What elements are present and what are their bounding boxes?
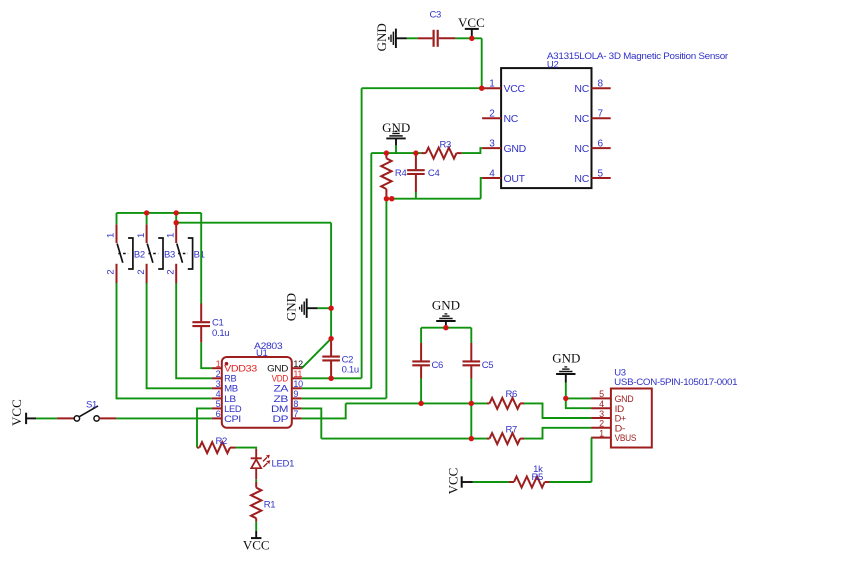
svg-text:C4: C4	[428, 168, 440, 179]
wire VDD vertical rail (U2 pin 1 to U1 pin 11)	[361, 88, 363, 378]
ground GND (top-left)	[374, 23, 418, 51]
svg-text:U1: U1	[256, 348, 268, 359]
svg-text:GND: GND	[552, 351, 580, 366]
power VCC (left of R5)	[446, 468, 473, 495]
wire R6 to U3 pin 3 D+	[524, 403, 591, 418]
svg-text:7: 7	[293, 409, 298, 419]
junction on D- line	[469, 436, 474, 441]
svg-text:2: 2	[489, 109, 495, 120]
svg-text:R6: R6	[506, 389, 518, 400]
resistor R6	[487, 389, 524, 409]
junction C2 bottom on VDD line	[328, 376, 333, 381]
svg-text:8: 8	[293, 399, 298, 409]
wire B1 tap to GND rail	[176, 222, 331, 224]
svg-text:6: 6	[598, 139, 604, 150]
wire R3 to U2 pin 3	[462, 148, 482, 153]
wire C1 to U1 pin 1 VDD33	[201, 343, 212, 369]
junction GND at U3 pin 5	[563, 396, 568, 401]
svg-text:0.1u: 0.1u	[342, 365, 359, 376]
svg-text:1: 1	[216, 359, 221, 369]
connector U3 USB-CON-5PIN-105017-0001	[591, 368, 737, 448]
ground GND (middle, near U1)	[284, 293, 332, 321]
capacitor C6	[412, 343, 443, 379]
svg-text:B2: B2	[134, 249, 145, 260]
wire C6/C5 top rail	[421, 327, 471, 329]
wire VCC to S1	[36, 417, 57, 419]
svg-text:5: 5	[216, 399, 221, 409]
switch S1	[57, 399, 116, 421]
wire C5 bottom to D+ line	[470, 379, 472, 404]
svg-text:C5: C5	[482, 360, 494, 371]
junction R4 top	[384, 150, 389, 155]
svg-text:MB: MB	[224, 384, 238, 394]
svg-text:U2: U2	[547, 59, 559, 70]
svg-text:NC: NC	[574, 173, 589, 185]
wire U1 pin 5 LED to R2	[197, 408, 212, 447]
svg-text:DM: DM	[271, 404, 288, 414]
svg-text:NC: NC	[574, 143, 589, 155]
svg-text:VCC: VCC	[458, 15, 485, 30]
wire S1 to U1 pin 6 CPI	[116, 417, 211, 419]
wire D+ horizontal line	[346, 402, 487, 404]
wire down to U2 pin 1	[481, 38, 483, 88]
svg-text:LB: LB	[224, 394, 236, 404]
wire U2 pin 4 OUT jog	[481, 178, 482, 199]
wire C3 to VCC node	[455, 37, 481, 39]
svg-text:2: 2	[165, 269, 176, 274]
svg-text:GND: GND	[432, 298, 460, 313]
svg-text:GND: GND	[615, 394, 635, 404]
wire U2 pin 1 to VDD rail	[362, 87, 482, 89]
capacitor C2	[322, 340, 359, 377]
svg-text:3: 3	[599, 409, 604, 419]
svg-text:LED1: LED1	[272, 458, 295, 469]
wire C4 bottom to OUT node	[415, 192, 417, 199]
junction OUT node	[389, 196, 394, 201]
svg-text:NC: NC	[574, 113, 589, 125]
svg-text:LED: LED	[224, 404, 242, 414]
wire C6 top lead	[420, 328, 422, 343]
svg-text:C3: C3	[430, 10, 442, 21]
junction B3 top	[144, 210, 149, 215]
wire B1 to U1 pin 2 RB	[176, 283, 212, 378]
capacitor C4	[407, 155, 439, 193]
wire C2 bottom to VDD line	[330, 377, 332, 378]
junction C6 bottom on D+ line	[418, 401, 423, 406]
svg-text:R4: R4	[395, 168, 407, 179]
resistor R4	[381, 154, 406, 198]
svg-text:ZA: ZA	[274, 384, 289, 394]
wire ZB vertical rail (U1 pin 9 to OUT node)	[385, 199, 387, 399]
svg-text:1k: 1k	[533, 464, 543, 475]
svg-text:12: 12	[293, 359, 303, 369]
svg-text:2: 2	[136, 269, 147, 274]
junction C4 top	[413, 150, 418, 155]
capacitor C3	[418, 10, 456, 47]
svg-text:4: 4	[489, 168, 495, 179]
pushbutton B3	[136, 213, 175, 284]
svg-text:GND: GND	[382, 120, 410, 135]
svg-text:9: 9	[293, 389, 298, 399]
svg-text:A31315LOLA- 3D Magnetic Positi: A31315LOLA- 3D Magnetic Position Sensor	[547, 51, 728, 62]
junction R4 bottom	[384, 196, 389, 201]
svg-text:4: 4	[599, 399, 604, 409]
wire C5 node to D- line	[470, 403, 472, 438]
wire ZA vertical rail (U1 pin 10 to GND node)	[370, 153, 372, 388]
svg-text:2: 2	[216, 369, 221, 379]
svg-text:10: 10	[293, 379, 303, 389]
power VCC (left of S1)	[9, 399, 36, 426]
svg-text:C6: C6	[432, 360, 444, 371]
svg-text:GND: GND	[284, 293, 299, 321]
wire R2 to LED1	[236, 448, 257, 449]
wire R1 to VCC	[255, 522, 257, 531]
svg-text:DP: DP	[273, 414, 289, 424]
svg-text:VCC: VCC	[243, 538, 270, 553]
svg-text:3: 3	[216, 379, 221, 389]
ground GND (above R3/R4 node)	[382, 120, 410, 153]
svg-text:11: 11	[293, 369, 302, 379]
junction node VCC/C3	[469, 36, 474, 41]
svg-text:S1: S1	[86, 399, 97, 410]
svg-text:B1: B1	[194, 249, 205, 260]
svg-text:GND: GND	[267, 364, 289, 374]
IC U1 A2803	[212, 341, 303, 428]
svg-text:NC: NC	[574, 83, 589, 95]
svg-text:R3: R3	[440, 140, 452, 151]
wire D- horizontal line	[321, 438, 487, 440]
wire GND to U3 pin 4 ID	[566, 398, 591, 408]
resistor R1	[251, 482, 275, 522]
junction GND to C6/C5 rail	[443, 325, 448, 330]
wire B2 to U1 pin 4 LB	[117, 283, 212, 398]
svg-text:OUT: OUT	[504, 173, 526, 185]
junction GND rail at middle ground	[328, 306, 333, 311]
pushbutton B2	[106, 213, 145, 284]
svg-text:3: 3	[489, 139, 495, 150]
LED LED1	[251, 449, 294, 479]
svg-text:VCC: VCC	[9, 399, 24, 426]
power VCC (bottom)	[243, 531, 270, 553]
svg-text:ID: ID	[615, 404, 625, 414]
svg-text:ZB: ZB	[274, 394, 289, 404]
svg-text:GND: GND	[374, 23, 389, 51]
wire GND rail vertical	[330, 223, 332, 339]
junction C5 bottom on D+ line	[469, 401, 474, 406]
wire U3 pin 1 VBUS down	[591, 438, 593, 482]
svg-text:VCC: VCC	[446, 468, 461, 495]
wire R5 to VCC	[473, 481, 509, 483]
svg-text:1: 1	[489, 79, 495, 90]
svg-text:6: 6	[216, 409, 221, 419]
wire OUT node horizontal	[386, 198, 480, 200]
junction at U2 pin 1	[479, 86, 484, 91]
svg-text:5: 5	[599, 389, 604, 399]
junction B1 top	[174, 210, 179, 215]
wire top rail to C1	[200, 213, 202, 304]
wire U1 pin 8 DM to D- line	[302, 408, 322, 438]
svg-text:CPI: CPI	[224, 414, 241, 424]
svg-text:8: 8	[598, 79, 604, 90]
wire C6 bottom to D+ line	[420, 379, 422, 404]
svg-text:NC: NC	[504, 113, 519, 125]
svg-text:B3: B3	[164, 249, 175, 260]
svg-text:D-: D-	[615, 423, 626, 433]
svg-text:1: 1	[599, 428, 604, 438]
svg-text:2: 2	[599, 419, 604, 429]
svg-text:GND: GND	[504, 143, 527, 155]
svg-text:0.1u: 0.1u	[212, 328, 229, 339]
svg-text:VBUS: VBUS	[615, 433, 637, 443]
wire U1 pin 9 ZB to rail	[302, 397, 387, 399]
svg-text:4: 4	[216, 389, 221, 399]
wire U1 pin 10 ZA to rail	[302, 387, 372, 389]
ground GND (above C6/C5)	[432, 298, 460, 328]
wire C5 top lead	[470, 328, 472, 343]
wire GND to U3 pin 5	[566, 397, 591, 399]
svg-text:1: 1	[106, 233, 117, 238]
wire button top rail	[117, 212, 202, 214]
power VCC (top)	[458, 15, 485, 39]
IC U2 A31315LOLA 3D magnetic position sensor	[482, 51, 728, 188]
capacitor C5	[463, 343, 494, 379]
junction C2 top / diagonal	[328, 336, 333, 341]
wire GND node to R3	[371, 152, 421, 154]
junction B1 tap	[174, 220, 179, 225]
resistor R5 1k	[509, 464, 550, 487]
svg-text:2: 2	[106, 269, 117, 274]
svg-text:VDD33: VDD33	[224, 364, 257, 374]
resistor R7	[487, 424, 524, 444]
svg-text:R1: R1	[264, 499, 276, 510]
svg-text:1: 1	[165, 233, 176, 238]
svg-text:7: 7	[598, 109, 604, 120]
svg-text:D+: D+	[615, 414, 626, 424]
resistor R2	[197, 436, 236, 453]
svg-text:5: 5	[598, 168, 604, 179]
wire R7 to U3 pin 2 D-	[524, 428, 591, 439]
svg-text:R2: R2	[216, 436, 228, 447]
wire U1 pin 7 DP to D+ line	[302, 403, 346, 418]
svg-text:VDD: VDD	[272, 374, 289, 384]
resistor R3	[421, 140, 462, 159]
svg-text:R7: R7	[506, 424, 518, 435]
svg-text:RB: RB	[224, 374, 237, 384]
ground GND (near U3)	[552, 351, 580, 399]
wire VBUS to R5	[550, 481, 592, 483]
capacitor C1	[192, 304, 229, 343]
svg-text:VCC: VCC	[504, 83, 526, 95]
wire B3 to U1 pin 3 MB	[147, 283, 212, 388]
wire diagonal U1 pin 12 to GND rail	[302, 339, 331, 369]
wire LED1 to R1	[255, 479, 257, 482]
pushbutton B1	[165, 213, 204, 284]
wire U1 pin 11 VDD to rail	[302, 377, 362, 379]
svg-text:USB-CON-5PIN-105017-0001: USB-CON-5PIN-105017-0001	[614, 377, 737, 388]
svg-text:1: 1	[136, 233, 147, 238]
